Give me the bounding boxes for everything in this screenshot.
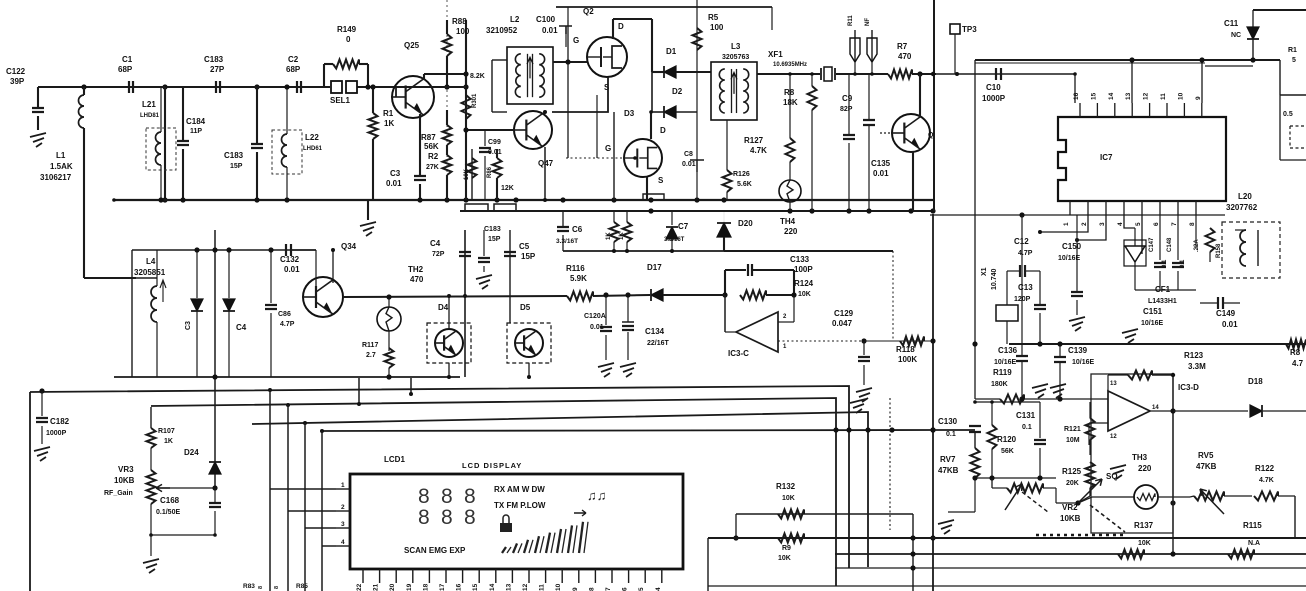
wire long bus 4: [322, 430, 933, 431]
svg-text:11: 11: [539, 584, 546, 591]
ground mid: [850, 399, 866, 413]
svg-text:82P: 82P: [840, 106, 853, 113]
svg-text:8: 8: [258, 586, 264, 589]
capacitor C12: [1020, 265, 1025, 277]
capacitor C148: [1177, 215, 1179, 260]
svg-text:R122: R122: [1255, 464, 1275, 473]
svg-text:10.740: 10.740: [991, 268, 998, 290]
svg-text:470: 470: [410, 275, 424, 284]
dotted section border left: [446, 0, 448, 200]
svg-text:0.1/50E: 0.1/50E: [156, 509, 180, 516]
resistor R116: [567, 292, 593, 301]
svg-text:C7: C7: [678, 222, 689, 231]
svg-text:♫♫: ♫♫: [587, 488, 607, 503]
svg-text:0.1: 0.1: [946, 431, 956, 438]
svg-text:NC: NC: [1231, 32, 1241, 39]
svg-text:CF1: CF1: [1155, 285, 1171, 294]
svg-text:0.01: 0.01: [488, 149, 502, 156]
svg-text:3106217: 3106217: [40, 173, 72, 182]
capacitor C134: [627, 295, 629, 322]
svg-text:14: 14: [1152, 405, 1159, 411]
wire Q2 drain: [612, 19, 614, 39]
IC7 top pins: [1079, 103, 1081, 117]
vertical main column x215: [214, 230, 216, 490]
svg-text:S: S: [658, 176, 664, 185]
svg-text:G: G: [605, 144, 611, 153]
resistor R8 18K: [811, 74, 813, 86]
svg-text:R7: R7: [897, 42, 908, 51]
svg-text:3: 3: [1099, 222, 1106, 226]
svg-text:7: 7: [605, 587, 612, 591]
capacitor C149: [1218, 297, 1223, 309]
svg-text:C130: C130: [938, 417, 958, 426]
svg-text:IC3-C: IC3-C: [728, 349, 749, 358]
svg-text:C183: C183: [204, 55, 224, 64]
wire C130 col: [969, 426, 981, 432]
svg-text:11: 11: [1160, 93, 1167, 100]
inductor L22 dashed box: [272, 130, 302, 174]
svg-text:C99: C99: [488, 139, 501, 146]
svg-text:20K: 20K: [1066, 480, 1079, 487]
svg-text:10.6935MHz: 10.6935MHz: [773, 62, 807, 68]
transformer L3: [711, 62, 757, 120]
resistor R5 100: [696, 20, 698, 34]
svg-text:D5: D5: [520, 303, 531, 312]
svg-text:LCD DISPLAY: LCD DISPLAY: [462, 461, 522, 470]
svg-text:18: 18: [422, 583, 429, 591]
wire Q34 to TH2 rail: [343, 296, 567, 297]
svg-text:9: 9: [1195, 96, 1202, 100]
wire RF input rail: [38, 86, 330, 88]
svg-text:10/16E: 10/16E: [1072, 359, 1095, 366]
wire VR3 wiper: [156, 487, 215, 489]
capacitor C13: [1039, 271, 1041, 305]
svg-text:C120A: C120A: [584, 313, 606, 320]
svg-text:100P: 100P: [794, 265, 813, 274]
svg-text:C13: C13: [1018, 283, 1033, 292]
svg-text:LHD81: LHD81: [140, 113, 160, 119]
test point TP3: [950, 24, 960, 34]
capacitor C150: [1076, 215, 1078, 292]
inductor L21 dashed box: [146, 128, 176, 170]
svg-text:100K: 100K: [898, 355, 917, 364]
resistor R125: [1086, 462, 1095, 488]
test point TP2: [871, 30, 873, 62]
svg-text:L20: L20: [1238, 192, 1252, 201]
svg-text:16: 16: [456, 583, 463, 591]
wire D3 source: [646, 177, 648, 200]
wire top border: [556, 6, 772, 8]
capacitor C4 72P: [459, 252, 471, 256]
svg-text:11P: 11P: [190, 128, 202, 135]
svg-text:5.9K: 5.9K: [570, 274, 587, 283]
wire SQ line: [1078, 497, 1092, 503]
svg-text:1: 1: [341, 482, 345, 489]
LCD arrow: [574, 510, 586, 516]
svg-text:3.3/16T: 3.3/16T: [664, 237, 685, 243]
diode D-C4: [228, 250, 230, 298]
wire rail 554: [835, 553, 1306, 555]
svg-text:D17: D17: [647, 263, 662, 272]
svg-text:0.01: 0.01: [873, 169, 889, 178]
svg-text:R120: R120: [997, 435, 1017, 444]
svg-text:IC7: IC7: [1100, 153, 1113, 162]
svg-text:C183: C183: [484, 226, 501, 233]
svg-text:C135: C135: [871, 159, 891, 168]
svg-text:4.7P: 4.7P: [1018, 250, 1033, 257]
double ground: [1032, 384, 1048, 398]
svg-text:5.6K: 5.6K: [737, 181, 752, 188]
wire right corner drop: [1279, 60, 1281, 95]
svg-text:22: 22: [356, 583, 363, 591]
wire double rail: [1205, 65, 1253, 67]
thermistor TH2: [377, 307, 401, 331]
wire bus 251: [724, 250, 893, 252]
wire R9 rail: [708, 537, 1306, 539]
svg-text:1000P: 1000P: [982, 94, 1006, 103]
svg-text:TH2: TH2: [408, 265, 424, 274]
IC7 top pin wires: [1131, 60, 1133, 103]
svg-text:5: 5: [1292, 57, 1296, 64]
svg-text:6: 6: [1153, 222, 1160, 226]
svg-text:13: 13: [1125, 92, 1132, 100]
FET Q2: [587, 37, 627, 77]
wire L2 left: [492, 59, 507, 61]
capacitor C183b 15P: [256, 87, 258, 144]
capacitor C7 column: [671, 211, 673, 225]
svg-text:8: 8: [464, 506, 476, 529]
svg-text:C134: C134: [645, 327, 665, 336]
svg-text:R117: R117: [362, 342, 378, 349]
svg-text:3205851: 3205851: [134, 268, 166, 277]
svg-text:10K: 10K: [464, 168, 470, 180]
svg-text:C131: C131: [1016, 411, 1036, 420]
resistor R117: [385, 348, 394, 368]
capacitor C120A: [605, 295, 607, 325]
wire Q25 emitter: [419, 114, 421, 176]
node C1 right: [162, 84, 167, 89]
resistor R9: [778, 534, 804, 543]
svg-text:C4: C4: [430, 239, 441, 248]
svg-text:5: 5: [638, 587, 645, 591]
wire D4 base drop: [448, 296, 450, 329]
svg-text:0.1: 0.1: [1022, 424, 1032, 431]
svg-text:4: 4: [1117, 222, 1124, 226]
wire Q2 source: [552, 77, 608, 112]
svg-text:TP3: TP3: [962, 25, 977, 34]
svg-text:R86: R86: [487, 166, 493, 178]
resistor R120: [991, 402, 993, 425]
svg-text:L21: L21: [142, 100, 156, 109]
wire right column x933: [932, 214, 934, 591]
svg-text:L2: L2: [510, 15, 520, 24]
svg-text:0.01: 0.01: [590, 324, 604, 331]
resistor pair 1K 1K: [613, 211, 615, 222]
svg-text:180K: 180K: [991, 381, 1008, 388]
svg-text:SCAN EMG EXP: SCAN EMG EXP: [404, 546, 466, 555]
resistor R301 8.2K vertical: [462, 95, 471, 119]
capacitor .22A: [1195, 215, 1197, 248]
wire bus B jogs: [465, 204, 488, 211]
capacitor C86: [270, 250, 272, 303]
photocoupler D5: [507, 323, 551, 363]
wire rail 568: [835, 567, 1306, 569]
capacitor C8: [690, 160, 704, 172]
svg-text:C5: C5: [519, 242, 530, 251]
svg-text:13: 13: [505, 583, 512, 591]
svg-text:39P: 39P: [10, 77, 25, 86]
capacitor C168: [214, 488, 216, 502]
svg-text:C11: C11: [1224, 19, 1239, 28]
svg-text:Q47: Q47: [538, 159, 554, 168]
svg-text:SEL1: SEL1: [330, 96, 351, 105]
svg-text:S: S: [604, 83, 610, 92]
capacitor C136: [1021, 344, 1023, 355]
wire long bus 3: [252, 412, 868, 567]
resistor R124: [722, 292, 727, 297]
svg-text:56K: 56K: [1001, 448, 1014, 455]
svg-text:0.1: 0.1: [1162, 259, 1168, 268]
svg-text:10K: 10K: [782, 495, 795, 502]
svg-text:8: 8: [274, 586, 280, 589]
capacitor C184: [182, 87, 184, 141]
svg-text:D: D: [660, 126, 666, 135]
IC7 bottom pins: [1069, 201, 1071, 215]
svg-text:7: 7: [1171, 222, 1178, 226]
wire Q34 collector: [332, 250, 334, 283]
wire ground bus A: [114, 199, 934, 201]
svg-text:Q25: Q25: [404, 41, 420, 50]
LCD1 block: [350, 474, 683, 569]
capacitor C5 15P: [504, 252, 516, 256]
svg-text:10/16E: 10/16E: [994, 359, 1017, 366]
wire 8.2K column: [465, 20, 467, 200]
capacitor C183 15P mid: [483, 230, 485, 256]
svg-text:56K: 56K: [424, 142, 439, 151]
wire grid verticals: [889, 398, 891, 530]
svg-text:12K: 12K: [501, 185, 514, 192]
svg-text:20: 20: [389, 583, 396, 591]
svg-text:1K: 1K: [619, 232, 625, 240]
wire long bus 1: [30, 386, 849, 568]
svg-text:0.01: 0.01: [542, 26, 558, 35]
svg-text:3210952: 3210952: [486, 26, 518, 35]
wire wiper rail 478: [975, 477, 1056, 479]
inductor L4: [151, 286, 157, 322]
ground main bus left: [367, 200, 369, 220]
resistor R122: [1254, 492, 1278, 501]
svg-text:10/16E: 10/16E: [1141, 320, 1164, 327]
svg-text:6: 6: [622, 587, 629, 591]
wire IF out dotted: [936, 73, 1075, 75]
svg-text:8: 8: [588, 587, 595, 591]
svg-text:C132: C132: [280, 255, 300, 264]
svg-text:VR3: VR3: [118, 465, 134, 474]
capacitor C139: [1059, 344, 1061, 356]
wire L1 to L4: [84, 277, 136, 279]
svg-text:15P: 15P: [488, 236, 501, 243]
svg-text:C151: C151: [1143, 307, 1163, 316]
svg-text:TH4: TH4: [780, 217, 796, 226]
wire Q34 base top: [315, 278, 317, 290]
wire D4 drop to bus: [358, 378, 360, 404]
wire vcc rail to IC7: [975, 59, 1280, 61]
FET D3: [624, 139, 662, 177]
svg-text:R137: R137: [1134, 521, 1154, 530]
node Q25 base: [365, 84, 370, 89]
svg-text:C122: C122: [6, 67, 26, 76]
svg-text:L1433H1: L1433H1: [1148, 298, 1177, 305]
svg-text:10M: 10M: [1066, 437, 1080, 444]
svg-text:X1: X1: [981, 267, 988, 276]
svg-text:4: 4: [655, 587, 662, 591]
svg-text:27K: 27K: [426, 164, 439, 171]
resistor R86 12K: [496, 149, 498, 158]
wire IC3D col: [1172, 375, 1174, 554]
capacitor C132: [286, 244, 291, 256]
svg-text:12: 12: [1143, 92, 1150, 100]
svg-text:R124: R124: [794, 279, 814, 288]
svg-text:R1: R1: [383, 109, 394, 118]
svg-text:C183: C183: [224, 151, 244, 160]
svg-text:15P: 15P: [521, 252, 536, 261]
svg-text:G: G: [573, 36, 579, 45]
svg-text:R116: R116: [566, 264, 585, 273]
svg-text:NF: NF: [865, 18, 871, 26]
svg-text:L1: L1: [56, 151, 66, 160]
wire Q25 to mixer: [404, 86, 466, 88]
svg-text:C148: C148: [1167, 237, 1173, 252]
node C183: [254, 84, 259, 89]
LCD left pins: [336, 488, 350, 490]
switch SEL1: [331, 81, 342, 93]
svg-text:15P: 15P: [230, 163, 243, 170]
svg-text:47KB: 47KB: [938, 466, 959, 475]
svg-text:C100: C100: [536, 15, 556, 24]
resistor R119: [975, 398, 1000, 400]
svg-text:C3: C3: [390, 169, 401, 178]
svg-text:D2: D2: [672, 87, 683, 96]
resistor R7 470: [888, 70, 912, 79]
svg-text:VR2: VR2: [1062, 503, 1078, 512]
svg-text:R87: R87: [421, 133, 436, 142]
wire osc bottom: [563, 250, 724, 252]
resistor R87-R2 chain: [446, 110, 448, 125]
diode D17: [651, 289, 663, 301]
box L4 section: [132, 249, 316, 251]
svg-text:LCD1: LCD1: [384, 455, 405, 464]
wire ground bus B: [460, 210, 934, 212]
capacitor C131: [1039, 402, 1041, 438]
svg-text:Q34: Q34: [341, 242, 357, 251]
resistor R107: [150, 407, 152, 428]
svg-text:R9: R9: [782, 545, 791, 552]
svg-text:8: 8: [418, 485, 430, 508]
svg-text:12: 12: [1110, 434, 1117, 440]
svg-text:C149: C149: [1216, 309, 1236, 318]
svg-text:R149: R149: [337, 25, 357, 34]
svg-text:C2: C2: [288, 55, 299, 64]
wire L2 sec to Q2 gate: [553, 61, 587, 63]
svg-text:4.7: 4.7: [1292, 359, 1304, 368]
svg-text:C168: C168: [160, 496, 180, 505]
potentiometer RV5: [1194, 492, 1224, 501]
op-amp IC3-C: [736, 312, 778, 352]
wire mid bus 344: [1009, 343, 1306, 345]
wire Q25 collector: [423, 74, 425, 80]
transistor Q25: [392, 76, 434, 118]
svg-text:10K: 10K: [778, 555, 791, 562]
wire IC7 pin1 net: [930, 214, 1225, 216]
svg-text:D18: D18: [1248, 377, 1263, 386]
capacitor C1: [129, 81, 133, 93]
svg-text:C139: C139: [1068, 346, 1088, 355]
svg-text:D4: D4: [438, 303, 449, 312]
svg-text:C10: C10: [986, 83, 1001, 92]
svg-text:3: 3: [341, 521, 345, 528]
capacitor C100 symbol: [559, 26, 572, 34]
wire Q47 base: [466, 129, 514, 131]
svg-text:0.01: 0.01: [284, 265, 300, 274]
svg-text:47KB: 47KB: [1196, 462, 1217, 471]
svg-text:D24: D24: [184, 448, 199, 457]
svg-text:8: 8: [441, 506, 453, 529]
svg-text:XF1: XF1: [768, 50, 783, 59]
resistor R115: [1228, 550, 1254, 559]
svg-text:1000P: 1000P: [46, 430, 67, 437]
svg-text:R158: R158: [1216, 243, 1222, 258]
svg-text:LHD61: LHD61: [303, 146, 323, 152]
svg-text:Q2: Q2: [583, 7, 594, 16]
capacitor C9: [848, 74, 850, 135]
node L1 top: [81, 84, 86, 89]
svg-text:68P: 68P: [118, 65, 133, 74]
capacitor C2: [297, 81, 301, 93]
capacitor C182: [39, 388, 44, 393]
svg-text:RV7: RV7: [940, 455, 956, 464]
resistor R1: [372, 87, 374, 113]
capacitor C183 27P: [216, 81, 220, 93]
svg-text:RX AM W DW: RX AM W DW: [494, 485, 545, 494]
svg-text:R1: R1: [1288, 47, 1297, 54]
svg-text:0.01: 0.01: [1222, 320, 1238, 329]
potentiometer VR2: [1007, 484, 1043, 493]
svg-text:C182: C182: [50, 417, 70, 426]
capacitor C129: [863, 341, 865, 355]
svg-text:R119: R119: [993, 368, 1012, 377]
resistor R88: [446, 20, 448, 34]
svg-text:C6: C6: [572, 225, 583, 234]
LCD bottom pins: [362, 569, 364, 583]
resistor R-edge: [1286, 340, 1306, 349]
svg-text:68P: 68P: [286, 65, 301, 74]
ground RV7: [938, 520, 954, 534]
svg-text:C1: C1: [122, 55, 133, 64]
resistor R85 10K vertical: [471, 149, 473, 200]
section divider x697: [696, 0, 698, 112]
svg-text:IC3-D: IC3-D: [1178, 383, 1199, 392]
svg-text:D: D: [618, 22, 624, 31]
LCD padlock: [500, 523, 512, 532]
svg-text:D20: D20: [738, 219, 753, 228]
svg-text:C8: C8: [684, 151, 693, 158]
svg-text:L3: L3: [731, 42, 741, 51]
svg-text:0: 0: [346, 35, 351, 44]
potentiometer RV7: [974, 432, 976, 448]
svg-text:R132: R132: [776, 482, 796, 491]
capacitor C99: [484, 130, 486, 146]
svg-text:R83: R83: [243, 583, 255, 590]
